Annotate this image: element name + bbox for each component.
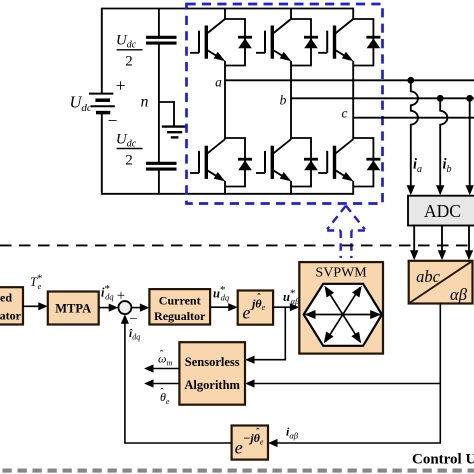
wire: D6 branch loop [353,138,373,187]
svg-text:ˆ: ˆ [257,293,261,304]
transistor Q2 (phase-b upper IGBT) [256,19,291,61]
arrowhead into e^jth [228,303,238,311]
wire: D2 branch loop [291,19,311,66]
diode D6 [366,159,380,170]
label - (battery) [108,111,118,131]
svg-text:ia: ia [413,157,422,176]
svg-text:u*αβ: u*αβ [283,288,300,307]
wire: capacitor branch vertical bottom [158,170,160,195]
arrowhead i_ab into Sensorless [245,379,255,387]
label - (summing) [129,312,137,328]
svg-text:Regualtor: Regualtor [154,309,206,323]
leg C spine [352,8,354,195]
junction dot on phase b (first) [437,95,444,102]
svg-text:2: 2 [125,153,133,169]
label i_dq hat (feedback) [129,328,140,342]
svg-text:iαβ: iαβ [286,425,299,441]
svg-text:SVPWM: SVPWM [315,266,367,281]
blue dashed PWM arrow (SVPWM to inverter) [327,206,365,258]
summing junction [118,301,131,314]
svg-text:Current: Current [159,294,201,308]
svg-text:Regulator: Regulator [0,309,22,323]
capacitor C2 (lower U_dc/2) [146,163,177,169]
block: e^{-j theta_e} [232,426,268,460]
svg-text:Udc: Udc [70,93,92,115]
svg-text:ˆ: ˆ [160,350,164,361]
battery U_dc [89,94,115,113]
svg-text:ˆ: ˆ [256,428,260,439]
wire: Current Regulator to e^jth [210,306,232,308]
block: abc to alpha-beta transform [409,261,473,304]
SVPWM hexagon [304,284,382,346]
node b label [280,93,287,108]
transistor Q4 (phase-a lower IGBT) [190,139,225,181]
svg-text:T*e: T*e [30,273,42,292]
junction dot on phase b (second) [466,95,473,102]
label u_dq^* [213,284,230,303]
arrowhead omega_m [144,364,154,372]
svg-text:e: e [243,303,251,323]
transistor Q1 (phase-a upper IGBT) [190,19,225,61]
label omega_m hat [158,350,172,368]
svg-text:ˆ: ˆ [160,388,164,399]
transistor Q3 (phase-c upper IGBT) [318,19,353,61]
arrowhead u_ab into Sensorless [245,356,255,364]
svg-text:Udc: Udc [116,33,137,51]
block: MTPA [48,292,99,325]
diode D2 [304,37,318,48]
wire: third sense drop [469,98,471,188]
label U_dc (battery) [70,93,92,115]
wire: top DC rail [102,8,353,10]
wire: summing junction to Current Regulator [131,307,143,309]
svg-text:2: 2 [125,54,133,70]
ADC block [408,196,474,226]
svg-text:u*dq: u*dq [213,284,230,303]
arrowhead into summing junction [109,304,119,312]
block: Speed Regulator (cut off at left edge) [0,287,23,324]
wire: phase c line [353,117,474,119]
svg-text:MTPA: MTPA [55,302,91,316]
leg A spine upper [224,9,226,195]
svg-text:Control Unit: Control Unit [412,452,474,468]
wire: D4 branch loop [225,138,245,187]
capacitor C1 (upper U_dc/2) [146,37,177,43]
arrowhead into Current Regulator [140,304,150,312]
svg-text:Algorithm: Algorithm [184,378,240,392]
control unit bottom dashed border (gray) [3,469,474,473]
node c label [342,106,348,121]
transistor Q5 (phase-b lower IGBT) [256,139,291,181]
arrowhead theta_e [144,379,154,387]
label i_dq^* [101,283,114,302]
transistor Q6 (phase-c lower IGBT) [318,139,353,181]
leg B spine [290,9,292,195]
inverter dashed blue box [187,4,383,204]
block: SVPWM [299,262,383,354]
wire: ADC to abc block (3 lines) [414,226,469,254]
label i_a [413,157,422,176]
wire: left vertical from top rail to battery [101,8,103,94]
label i_ab [286,425,299,441]
label T_e^* [30,273,42,292]
block: e^{j theta_e} (dq to alpha-beta rotation) [238,291,273,325]
wire: phase a line [225,79,474,81]
wire: capacitor branch vertical middle [158,44,160,163]
node n label [141,94,149,111]
wire: theta_e output [150,383,180,385]
wire: u_ab branch down to Sensorless [251,307,285,360]
svg-text:−: − [129,312,137,328]
diode D3 [366,37,380,48]
wire: i_ab branch to Sensorless [251,383,440,385]
wire: speed regulator to MTPA [23,305,42,307]
wire: D5 branch loop [291,138,311,187]
label U_dc/2 (upper) [116,33,143,70]
svg-text:i*dq: i*dq [101,283,114,302]
svg-text:ib: ib [443,157,452,176]
wire: D3 branch loop [353,19,373,66]
wire: i_b sense drop with hop over c [440,98,447,188]
label u_ab^* [283,288,300,307]
svg-text:a: a [215,75,222,90]
wire: capacitor branch vertical top [158,9,160,37]
diode D4 [238,159,252,170]
label + (summing) [117,288,125,304]
arrowhead i_a into ADC [407,185,415,195]
node a label [215,75,222,90]
svg-text:abc: abc [416,267,441,286]
wire: i_a sense drop with hops over b and c [411,80,418,188]
block: Sensorless Algorithm [179,342,245,405]
label U_dc/2 (lower) [116,132,143,169]
svg-text:b: b [280,93,287,108]
arrowhead i_b into ADC [436,185,444,195]
label + (battery) [116,76,126,96]
label theta_e hat [160,388,170,407]
block: Current Regulator [149,289,210,324]
arrowhead i_ab into e^-jth [268,439,278,447]
arrowhead into MTPA [38,302,48,310]
arrowhead into SVPWM [290,303,300,311]
control unit top dashed border [0,244,474,246]
arrowhead third into ADC [466,185,474,195]
wire: abc block down and left to e^-jth (i_alphabeta) [274,304,441,444]
svg-text:îdq: îdq [129,328,140,342]
arrowhead feedback into summing junction [121,314,129,324]
svg-text:ADC: ADC [424,201,461,221]
label i_b [443,157,452,176]
wire: node n to ground [159,102,174,126]
svg-text:Udc: Udc [116,132,137,150]
wire: phase b line [291,97,474,99]
wire: e^jth to SVPWM [273,306,294,308]
svg-text:+: + [116,76,126,96]
svg-text:αβ: αβ [450,285,468,304]
svg-text:e: e [235,438,243,458]
wire: omega_m output [150,368,180,370]
wire: bottom DC rail [102,193,353,195]
svg-text:n: n [141,94,149,111]
svg-text:Sensorless: Sensorless [185,355,240,369]
label Control Unit [412,452,474,468]
diode D5 [304,159,318,170]
ground [162,127,188,138]
junction dot on phase a [407,77,414,84]
wire: e^-jth output feedback to summing junction [125,319,232,443]
wire: left vertical from battery to bottom rail [101,113,103,195]
diode D1 [238,37,252,48]
wire: D1 branch loop [225,19,245,66]
arrowheads into abc block [410,250,473,260]
svg-text:−: − [108,111,118,131]
wire: MTPA to summing junction [99,307,113,309]
svg-text:c: c [342,106,348,121]
svg-text:Speed: Speed [0,291,12,305]
